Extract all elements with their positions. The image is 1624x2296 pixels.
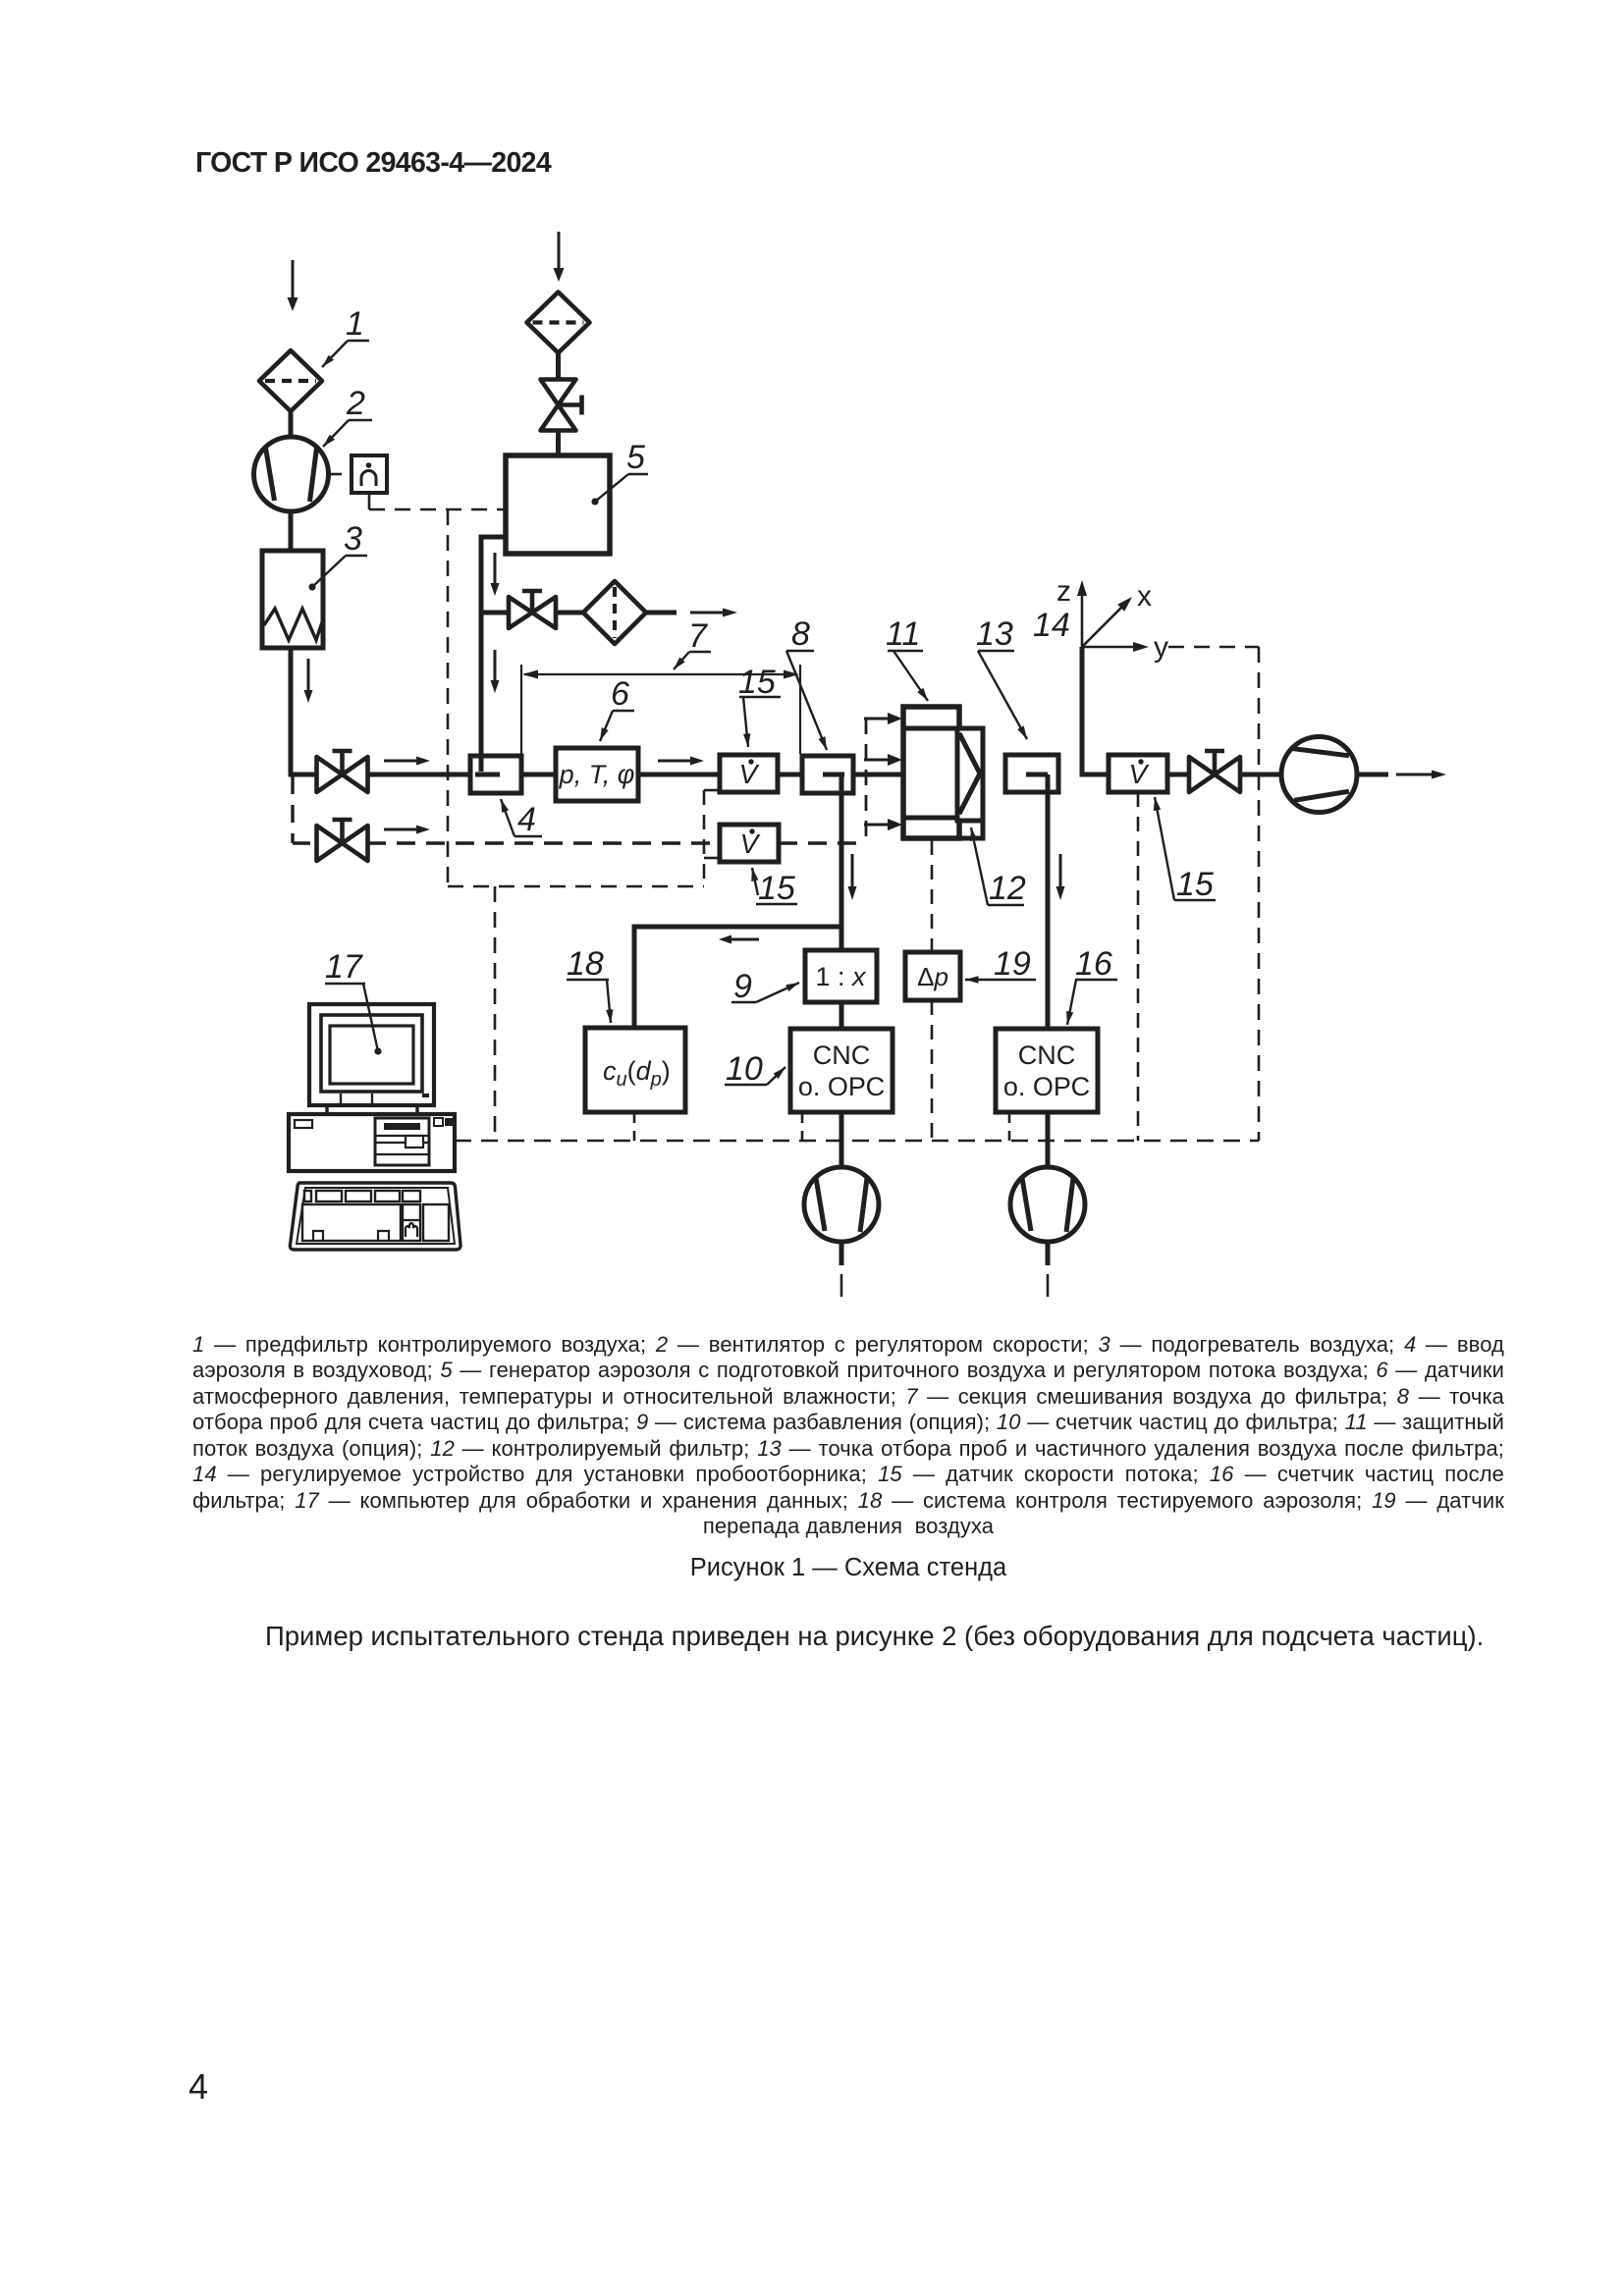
label 1 leader	[322, 305, 369, 367]
valve vertical (generator supply)	[541, 380, 582, 431]
svg-text:8: 8	[791, 615, 810, 653]
valve outlet	[1189, 751, 1240, 792]
wire: fan to heater	[289, 511, 294, 552]
svg-text:о. ОРС: о. ОРС	[1003, 1072, 1090, 1101]
svg-text:9: 9	[733, 968, 752, 1005]
svg-text:p, T, φ: p, T, φ	[559, 760, 635, 789]
label 19 leader	[965, 945, 1036, 984]
wire: diluter to CNC 10	[839, 1002, 844, 1029]
flow arrow down (sample line 8)	[848, 854, 857, 900]
svg-text:2: 2	[346, 385, 365, 422]
svg-text:16: 16	[1075, 945, 1112, 983]
aerosol inlet 4 (injection box)	[470, 756, 521, 793]
wire: sample line down from 8	[839, 774, 844, 950]
sampling point 13 (probe box)	[1005, 755, 1058, 792]
wire: CNC 10 to pump	[839, 1112, 844, 1168]
data bus dashed (computer to instruments)	[455, 1112, 1259, 1141]
control line: protective air (dashed vertical)	[865, 719, 868, 843]
svg-text:15: 15	[738, 664, 776, 701]
heater 3 (air preheater)	[262, 551, 323, 648]
wire: inlet air arrow (generator branch)	[554, 232, 565, 282]
svg-text:15: 15	[1176, 866, 1214, 903]
signal line dashed (dp to bus)	[931, 1000, 934, 1141]
wire: pump 10 exhaust	[839, 1242, 844, 1297]
flow arrow right (after sensors)	[658, 757, 704, 766]
svg-text:19: 19	[994, 945, 1031, 983]
label 8 leader	[786, 615, 827, 750]
svg-text:1 : x: 1 : x	[815, 962, 867, 991]
label 4 leader	[501, 799, 542, 838]
signal line dashed (y903)	[448, 885, 704, 888]
valve main duct (left)	[317, 751, 368, 792]
aerosol generator 5	[506, 455, 610, 554]
svg-text:CNC: CNC	[1018, 1041, 1076, 1070]
speed controller box (n-dot)	[352, 455, 387, 493]
label 15 bypass leader	[751, 868, 797, 907]
label 7 leader	[674, 617, 711, 669]
control line dashed (y-axis to bus)	[1168, 647, 1259, 1141]
valve bypass duct	[317, 820, 368, 861]
signal line dashed (x504 to data bus)	[494, 886, 497, 1141]
wire: sample line down from 13	[1046, 774, 1051, 1029]
flow arrow left (to monitor)	[719, 935, 759, 944]
wire: sensor 15 to sampling point 8	[778, 773, 802, 777]
flow arrow down (feed 1)	[491, 553, 500, 596]
extraction fan (blower)	[1281, 737, 1357, 813]
wire: box4 to sensors 6	[521, 773, 556, 777]
svg-text:1: 1	[346, 305, 364, 343]
fan 2 (blower with speed control)	[254, 437, 329, 511]
svg-text:о. ОРС: о. ОРС	[798, 1072, 885, 1101]
label 2 leader	[323, 385, 372, 447]
protective air arrow bottom	[864, 819, 902, 830]
label 18 leader	[567, 945, 614, 1023]
flow sensor 15 outlet (V-dot box)	[1109, 755, 1167, 792]
svg-text:5: 5	[626, 439, 645, 476]
label 3 leader	[308, 520, 367, 591]
label 15 outlet leader	[1154, 797, 1216, 903]
bypass duct dashed (sensor to housing)	[779, 841, 866, 844]
wire: aerosol feed pipe from generator 5	[481, 537, 506, 773]
wire: filter to valve	[556, 353, 561, 380]
protective air arrow top	[864, 713, 902, 724]
signal line dashed (outlet sensor to bus)	[1137, 792, 1140, 1141]
svg-text:x: x	[1137, 580, 1152, 613]
bypass duct dashed (valve to sensor)	[367, 841, 720, 844]
svg-text:13: 13	[976, 615, 1013, 653]
wire: exhaust line out	[646, 611, 677, 615]
wire: fan outlet	[1357, 773, 1388, 777]
flow arrow down (after heater)	[304, 659, 313, 703]
label 15 upstream leader	[738, 664, 781, 747]
positioner 14 coordinate axes	[1033, 575, 1168, 664]
valve excess air	[509, 591, 556, 628]
svg-text:y: y	[1154, 631, 1168, 664]
wire: inlet air arrow (left branch)	[288, 260, 298, 311]
pressure sensor 19 (delta-p)	[905, 952, 960, 1000]
signal line: flow sensors to controller (x717)	[704, 790, 720, 886]
svg-text:CNC: CNC	[813, 1041, 871, 1070]
label 17 leader	[325, 948, 382, 1055]
wire: heater to main duct corner	[291, 648, 318, 774]
wire: CNC 16 to pump	[1046, 1112, 1051, 1168]
sensors 6 box (p,T,phi)	[556, 748, 638, 801]
label 9 leader	[731, 968, 799, 1005]
wire: generator drain branch	[481, 611, 509, 615]
protective flow housing 11	[903, 707, 983, 838]
control line: fan to controller (dashed)	[330, 473, 350, 476]
sampling point 8 (probe box)	[802, 756, 853, 793]
wire: valve to generator 5	[556, 430, 561, 455]
wire: prefilter to fan	[289, 411, 294, 438]
svg-text:12: 12	[989, 870, 1026, 907]
computer 17 (monitor, system unit, keyboard)	[289, 1004, 460, 1250]
label 5 leader	[591, 439, 648, 506]
wire: valve to exhaust filter	[556, 611, 584, 615]
svg-text:17: 17	[325, 948, 363, 986]
vacuum pump (counter 16)	[1010, 1167, 1085, 1242]
label 12 leader	[970, 828, 1026, 907]
svg-text:10: 10	[726, 1050, 763, 1088]
flow sensor 15 bypass (V-dot box)	[720, 825, 779, 862]
bypass duct dashed (left drop)	[291, 776, 294, 843]
svg-text:3: 3	[344, 520, 362, 558]
particle counter 10 (CNC o.OPC)	[790, 1029, 893, 1112]
dimension line 7 (mixing section)	[521, 665, 800, 754]
wire: outlet duct (from positioner)	[1082, 647, 1109, 774]
particle counter 16 (CNC o.OPC)	[996, 1029, 1098, 1112]
label 16 leader	[1066, 945, 1117, 1025]
flow arrow down (feed 2)	[491, 650, 500, 693]
label 11 leader	[886, 615, 928, 701]
filter under test 12 (wedge)	[957, 728, 983, 821]
flow arrow into housing (main)	[864, 754, 902, 766]
wire: valve to extraction fan	[1240, 773, 1283, 777]
flow arrow down (sample line 13)	[1056, 854, 1065, 900]
control line: controller to generator 5 (dashed)	[369, 493, 505, 509]
wire: branch to aerosol monitor 18	[634, 927, 841, 1028]
supply air filter (diamond)	[527, 293, 590, 353]
vacuum pump (counter 10)	[804, 1167, 879, 1242]
flow arrow right (air exit)	[1396, 771, 1446, 779]
flow arrow right (bypass)	[384, 826, 430, 834]
flow sensor 15 upstream (V-dot box)	[720, 755, 778, 792]
svg-text:11: 11	[886, 615, 920, 653]
wire: main duct to aerosol inlet 4	[367, 773, 470, 777]
wire: sensor to outlet valve	[1167, 773, 1189, 777]
wire: sampling point 8 to housing	[853, 773, 903, 777]
svg-text:6: 6	[611, 675, 629, 713]
diluter 9 box (1:x)	[805, 950, 877, 1002]
svg-text:Δp: Δp	[917, 962, 948, 991]
svg-text:4: 4	[517, 801, 536, 838]
svg-text:18: 18	[567, 945, 604, 983]
wire: sensors to flow sensor 15	[638, 773, 720, 777]
svg-text:7: 7	[688, 617, 708, 655]
exhaust filter diamond (vertical dashes)	[583, 581, 646, 644]
flow arrow right (exhaust)	[690, 609, 737, 617]
aerosol monitor 18 box (cu(dp))	[585, 1028, 685, 1112]
signal line dashed (housing to dp)	[931, 840, 934, 951]
label 10 leader	[725, 1050, 785, 1088]
flow arrow right (after main valve)	[384, 757, 430, 766]
signal line dashed (x456)	[447, 509, 450, 886]
svg-text:14: 14	[1033, 607, 1070, 644]
bypass duct dashed (to valve)	[293, 841, 317, 844]
wire: pump 16 exhaust	[1046, 1242, 1051, 1297]
label 6 leader	[600, 675, 634, 741]
label 13 leader	[976, 615, 1027, 739]
svg-text:z: z	[1056, 575, 1071, 608]
prefilter 1 (filter diamond)	[259, 350, 322, 411]
svg-text:15: 15	[758, 870, 795, 907]
